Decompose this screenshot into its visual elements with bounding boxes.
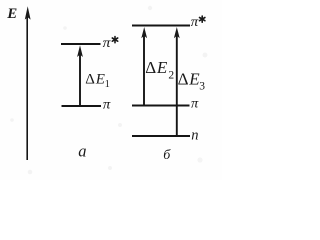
svg-text:Δ: Δ bbox=[145, 58, 156, 77]
svg-text:E: E bbox=[95, 71, 105, 87]
energy axis arrow bbox=[25, 6, 31, 160]
level line pi* (diagram b) bbox=[132, 25, 190, 27]
svg-text:E: E bbox=[6, 6, 17, 22]
label dE1 bbox=[85, 71, 110, 90]
svg-text:3: 3 bbox=[199, 81, 205, 93]
transition arrow dE1 bbox=[77, 45, 83, 106]
svg-text:б: б bbox=[163, 148, 171, 163]
level line pi* (diagram a) bbox=[61, 43, 101, 45]
transition arrow dE3 bbox=[174, 27, 180, 136]
label pi* (diagram b) bbox=[191, 14, 205, 29]
transition arrow dE2 bbox=[141, 27, 147, 106]
svg-text:Δ: Δ bbox=[85, 71, 95, 87]
label pi* (diagram a) bbox=[103, 35, 118, 50]
svg-text:а: а bbox=[78, 142, 86, 161]
svg-text:Δ: Δ bbox=[178, 69, 189, 88]
svg-text:E: E bbox=[156, 58, 168, 77]
level line n (diagram b) bbox=[132, 135, 190, 137]
level line pi (diagram a) bbox=[62, 105, 102, 107]
level line pi (diagram b) bbox=[132, 105, 190, 107]
svg-text:1: 1 bbox=[105, 79, 110, 90]
label dE2 bbox=[145, 58, 174, 81]
svg-text:2: 2 bbox=[168, 70, 174, 82]
label dE3 bbox=[178, 69, 206, 92]
svg-text:n: n bbox=[191, 128, 198, 144]
